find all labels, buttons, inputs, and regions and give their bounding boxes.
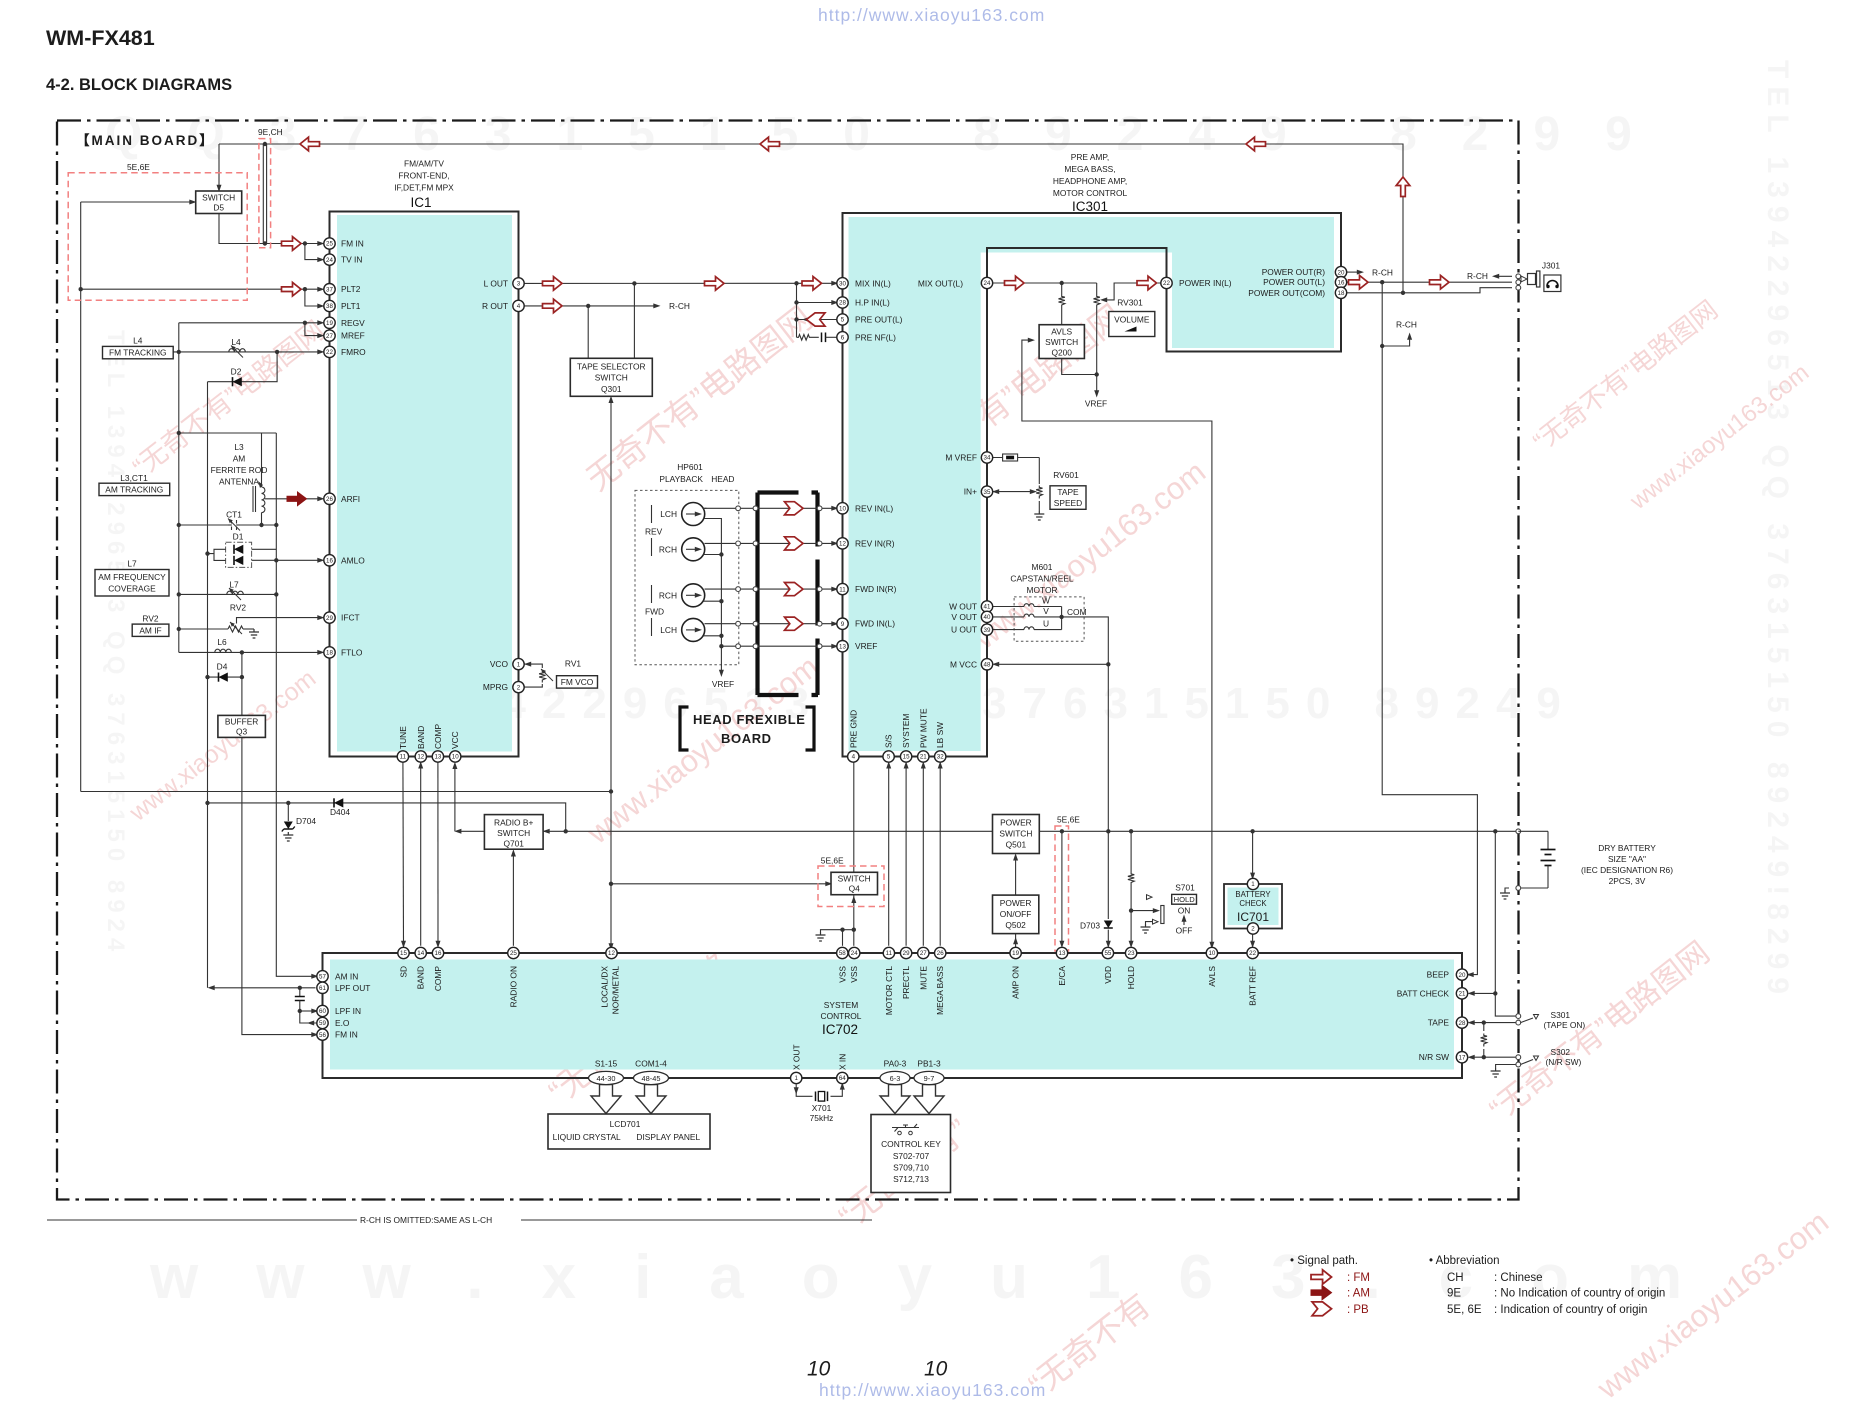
svg-text:(TAPE ON): (TAPE ON) xyxy=(1544,1020,1586,1030)
svg-text:(N/R SW): (N/R SW) xyxy=(1546,1057,1582,1067)
IC301 bottom pin labels rotated xyxy=(848,708,945,748)
svg-text:IF,DET,FM MPX: IF,DET,FM MPX xyxy=(394,183,454,193)
pin 18 IC301 POWER OUT(COM) xyxy=(1335,287,1346,298)
head coil REV RCH xyxy=(682,538,705,561)
svg-text:TAPE: TAPE xyxy=(1057,487,1079,497)
capacitor CT1 (trimmer) xyxy=(226,510,242,531)
pin 22 IC301 POWER IN(L) xyxy=(1161,277,1172,288)
svg-text:COMP: COMP xyxy=(433,966,443,992)
svg-text:21: 21 xyxy=(1459,991,1466,998)
pin 29 IC702 PRECTL xyxy=(900,947,911,958)
svg-text:25: 25 xyxy=(510,950,517,957)
svg-text:MEGA BASS,: MEGA BASS, xyxy=(1064,164,1115,174)
svg-text:AMP ON: AMP ON xyxy=(1011,966,1021,999)
svg-text:VREF: VREF xyxy=(1085,399,1107,409)
svg-text:FM IN: FM IN xyxy=(335,1030,358,1040)
svg-text:FWD IN(L): FWD IN(L) xyxy=(855,619,895,629)
svg-text:RV301: RV301 xyxy=(1117,298,1143,308)
svg-text:VDD: VDD xyxy=(1103,966,1113,984)
svg-text:2: 2 xyxy=(517,684,521,691)
variant box 9E,CH xyxy=(259,139,271,248)
pin 57 IC702 AM IN xyxy=(317,971,328,982)
svg-text:• Abbreviation: • Abbreviation xyxy=(1429,1255,1500,1267)
svg-text:19: 19 xyxy=(1012,950,1019,957)
svg-text:POWER: POWER xyxy=(1000,818,1032,828)
wire: top return bus y=144 xyxy=(219,144,1403,293)
pin 11 IC702 MOTOR CTL xyxy=(883,947,894,958)
pin 17 IC702 N/R SW xyxy=(1456,1052,1467,1063)
svg-text:PLAYBACK: PLAYBACK xyxy=(659,474,703,484)
svg-text:10: 10 xyxy=(452,754,459,761)
svg-text:D2: D2 xyxy=(231,367,242,377)
switch D5 box xyxy=(196,191,242,214)
wire: VDD via D703 xyxy=(1107,831,1109,945)
svg-text:J301: J301 xyxy=(1542,261,1561,271)
svg-text:SIZE "AA": SIZE "AA" xyxy=(1608,854,1646,864)
svg-text:SPEED: SPEED xyxy=(1054,498,1082,508)
rule line beside R-CH IS OMITTED note xyxy=(47,1219,357,1221)
svg-text:SWITCH: SWITCH xyxy=(497,828,530,838)
pin 59 IC702 E.O xyxy=(317,1017,328,1028)
pin 35 IC301 IN+ xyxy=(981,486,992,497)
wire: SWITCH Q4 input from LOCAL/DX line xyxy=(611,883,829,885)
resistor between TAPE and N/R SW xyxy=(1481,1034,1487,1047)
svg-text:HP601: HP601 xyxy=(677,462,703,472)
wire: BATT CHECK to pin 21 xyxy=(1471,992,1496,994)
battery BAT (dry battery) xyxy=(1500,829,1556,899)
wire: BAND pins 12-14 xyxy=(420,765,422,946)
svg-text:BAND: BAND xyxy=(416,726,426,749)
svg-text:RV1: RV1 xyxy=(565,659,581,669)
svg-text:PRE AMP,: PRE AMP, xyxy=(1071,152,1109,162)
svg-text:39: 39 xyxy=(984,627,991,634)
svg-text:6-3: 6-3 xyxy=(890,1074,901,1083)
pin 13 IC1 COMP xyxy=(432,751,443,762)
label L3 AM FERRITE ROD ANTENNA xyxy=(211,442,268,487)
svg-text:FM/AM/TV: FM/AM/TV xyxy=(404,159,444,169)
wire: vertical x=276.3 down to AM IN xyxy=(276,525,315,976)
svg-text:BATTERY: BATTERY xyxy=(1235,890,1271,899)
svg-text:RV2: RV2 xyxy=(142,614,158,624)
svg-text:R-CH: R-CH xyxy=(1372,268,1393,278)
label box L7 AM FREQUENCY COVERAGE xyxy=(95,559,169,597)
label R-CH mid right xyxy=(1382,336,1409,346)
svg-text:IC301: IC301 xyxy=(1072,199,1108,214)
svg-text:TAPE SELECTOR: TAPE SELECTOR xyxy=(577,362,646,372)
wire: TAPE pin 28 to S301 xyxy=(1471,1022,1517,1024)
pin 60 IC702 LPF IN xyxy=(317,1005,328,1016)
switch Q4 box xyxy=(831,872,878,894)
svg-text:Q3: Q3 xyxy=(236,727,248,737)
svg-text:S301: S301 xyxy=(1551,1010,1571,1020)
pin 10 IC301 REV IN(L) xyxy=(837,503,848,514)
svg-text:MIX OUT(L): MIX OUT(L) xyxy=(918,278,963,288)
bus arrow PA0-3 to control keys xyxy=(880,1085,910,1114)
svg-text:IC701: IC701 xyxy=(1237,910,1269,924)
svg-text:13: 13 xyxy=(434,754,441,761)
svg-text:23: 23 xyxy=(1128,950,1135,957)
svg-text:HEAD: HEAD xyxy=(711,474,734,484)
svg-text:LPF OUT: LPF OUT xyxy=(335,983,370,993)
svg-text:SYSTEM: SYSTEM xyxy=(901,714,911,748)
pin 27 IC702 MUTE xyxy=(918,947,929,958)
wire: E/CA line xyxy=(1061,831,1063,945)
svg-text:: Chinese: : Chinese xyxy=(1494,1272,1543,1284)
svg-text:【MAIN BOARD】: 【MAIN BOARD】 xyxy=(76,133,215,148)
head coil FWD RCH xyxy=(682,584,705,607)
svg-text:LCH: LCH xyxy=(660,509,677,519)
svg-text:REV IN(L): REV IN(L) xyxy=(855,503,893,513)
svg-text:AM TRACKING: AM TRACKING xyxy=(105,484,163,494)
svg-text:COM: COM xyxy=(1067,607,1087,617)
svg-text:64: 64 xyxy=(839,1075,846,1082)
svg-text:4: 4 xyxy=(852,754,856,761)
pin 23 IC702 HOLD xyxy=(1125,947,1136,958)
wire: R OUT to R-CH xyxy=(519,305,658,307)
svg-text:20: 20 xyxy=(1459,972,1466,979)
pin 55 IC702 VDD xyxy=(1102,947,1113,958)
pin 12 IC1 BAND xyxy=(415,751,426,762)
pin 24 IC1 TV IN xyxy=(324,254,335,265)
svg-text:DRY BATTERY: DRY BATTERY xyxy=(1598,843,1656,853)
svg-text:AM IF: AM IF xyxy=(139,625,161,635)
svg-text:FWD IN(R): FWD IN(R) xyxy=(855,584,897,594)
svg-text:PLT2: PLT2 xyxy=(341,284,361,294)
svg-text:V: V xyxy=(1043,606,1049,616)
wire: M VREF pin 34 network xyxy=(993,454,1040,484)
zener diode D704 to ground xyxy=(282,803,317,841)
pin 37 IC1 PLT2 xyxy=(324,284,335,295)
wire: vertical x=207.5 D2 to LPF OUT xyxy=(207,382,209,988)
svg-text:RADIO B+: RADIO B+ xyxy=(494,818,533,828)
svg-text:TEL 13942296513 QQ 376315150 8: TEL 13942296513 QQ 376315150 8924 xyxy=(102,330,129,957)
svg-text:ON/OFF: ON/OFF xyxy=(1000,909,1032,919)
net VREF (below RV301) xyxy=(1085,375,1107,409)
pin 61 IC702 LPF OUT xyxy=(317,982,328,993)
svg-text:D404: D404 xyxy=(330,807,350,817)
wire: FWD IN(R) line y=589.1 xyxy=(705,588,836,590)
svg-text:: FM: : FM xyxy=(1347,1272,1370,1284)
switch S301 (TAPE ON) xyxy=(1516,1010,1586,1030)
svg-text:ANTENNA: ANTENNA xyxy=(219,477,259,487)
connector J301 headphone jack xyxy=(1516,261,1561,292)
svg-text:14: 14 xyxy=(417,950,424,957)
pin 11 IC1 TUNE xyxy=(397,751,408,762)
volume control RV301 box xyxy=(1109,298,1155,337)
bus arrow to LCD common lines xyxy=(636,1085,666,1114)
svg-text:15: 15 xyxy=(400,950,407,957)
pin 26 IC1 ARFI xyxy=(324,493,335,504)
svg-text:17: 17 xyxy=(1459,1054,1466,1061)
svg-text:LCH: LCH xyxy=(660,625,677,635)
svg-text:5E,6E: 5E,6E xyxy=(127,162,150,172)
wire: AMLO row to pin 16 xyxy=(252,559,321,561)
svg-text:LB SW: LB SW xyxy=(935,722,945,748)
inductor L7 (variable) xyxy=(227,580,244,601)
svg-text:S302: S302 xyxy=(1551,1047,1571,1057)
svg-text:AM IN: AM IN xyxy=(335,971,358,981)
pin 20 IC702 BEEP xyxy=(1456,969,1467,980)
svg-text:AMLO: AMLO xyxy=(341,555,365,565)
wire: S302 ground side xyxy=(1496,1065,1516,1069)
watermark: pink cluster upper-left xyxy=(127,315,330,483)
svg-text:RCH: RCH xyxy=(659,591,677,601)
svg-text:25: 25 xyxy=(326,241,333,248)
pin 2 IC701 2 (bottom) xyxy=(1247,923,1258,934)
pin 6 IC301 PRE NF(L) xyxy=(837,332,848,343)
svg-text:44-30: 44-30 xyxy=(597,1074,616,1083)
watermark: pink cluster mid-right xyxy=(917,297,1130,475)
svg-text:MIX IN(L): MIX IN(L) xyxy=(855,278,891,288)
svg-text:ARFI: ARFI xyxy=(341,494,360,504)
svg-text:POWER OUT(COM): POWER OUT(COM) xyxy=(1248,288,1325,298)
wire: left loop vertical x=80.7 xyxy=(80,202,82,792)
svg-text:HOLD: HOLD xyxy=(1174,895,1196,904)
FM signal arrows on top return bus xyxy=(300,137,320,151)
svg-text:BATT CHECK: BATT CHECK xyxy=(1397,988,1450,998)
svg-text:IN+: IN+ xyxy=(964,487,977,497)
svg-text:S1-15: S1-15 xyxy=(595,1059,618,1069)
wire: FWD IN(L) line y=623.7 xyxy=(705,623,836,625)
pin 12 IC702 LOCAL/DX xyxy=(606,947,617,958)
svg-text:MREF: MREF xyxy=(341,331,365,341)
tape selector switch Q301 box xyxy=(570,358,652,396)
pin 28 IC301 H.P IN(L) xyxy=(837,297,848,308)
svg-text:M VREF: M VREF xyxy=(945,453,977,463)
inductor L6 xyxy=(215,637,232,652)
wire: H.P IN feedback vertical x=796.5 xyxy=(796,283,798,337)
svg-text:SYSTEM: SYSTEM xyxy=(824,1000,858,1010)
svg-text:Q301: Q301 xyxy=(601,384,622,394)
svg-text:REV IN(R): REV IN(R) xyxy=(855,538,895,548)
pin 14 IC702 BAND xyxy=(415,947,426,958)
svg-text:MOTOR CTL: MOTOR CTL xyxy=(884,966,894,1016)
label box L4 FM TRACKING xyxy=(103,336,174,359)
svg-text:L3,CT1: L3,CT1 xyxy=(120,473,148,483)
svg-text:35: 35 xyxy=(984,489,991,496)
pin 3 IC1 L OUT xyxy=(513,278,524,289)
svg-text:L4: L4 xyxy=(133,336,143,346)
pin 28 IC702 TAPE xyxy=(1456,1017,1467,1028)
FM arrow on R OUT xyxy=(543,299,563,313)
svg-text:RV2: RV2 xyxy=(230,603,246,613)
wire: PW MUTE pin 21 to MUTE xyxy=(922,765,924,946)
head coil FWD LCH xyxy=(682,618,705,641)
IC702 top pin labels rotated xyxy=(399,966,1258,1016)
svg-text:SD: SD xyxy=(399,966,409,978)
svg-text:TEL 13942296513 QQ 376315150 8: TEL 13942296513 QQ 376315150 89249!8299 xyxy=(1761,60,1794,1002)
switch S701 HOLD xyxy=(1131,883,1196,936)
svg-text:FERRITE ROD: FERRITE ROD xyxy=(211,465,268,475)
svg-text:SWITCH: SWITCH xyxy=(202,193,235,203)
pin 15 IC702 SD xyxy=(398,947,409,958)
svg-text:PLT1: PLT1 xyxy=(341,301,361,311)
svg-text:POWER IN(L): POWER IN(L) xyxy=(1179,278,1232,288)
svg-text:PRE OUT(L): PRE OUT(L) xyxy=(855,315,903,325)
svg-text:D4: D4 xyxy=(217,662,228,672)
IC702 bus pin COM1-4 48-45 xyxy=(634,1071,669,1084)
pin 58 IC702 VSS xyxy=(837,947,848,958)
main board dash-dot border xyxy=(57,121,1519,1200)
pin 26 IC702 MEGA BASS xyxy=(935,947,946,958)
wire: head common VREF vertical x=721.4 xyxy=(704,519,735,690)
svg-text:16: 16 xyxy=(435,950,442,957)
pin 56 IC702 FM IN xyxy=(317,1029,328,1040)
svg-text:RADIO ON: RADIO ON xyxy=(508,966,518,1007)
IC1 bottom pin labels rotated xyxy=(398,723,460,749)
svg-text:AVLS: AVLS xyxy=(1051,327,1072,337)
wire: PRE GND pin 4 through switch Q4 xyxy=(853,757,855,930)
wire: RV301 wiper to POWER IN(L) xyxy=(1103,283,1167,300)
svg-text:18: 18 xyxy=(326,650,333,657)
svg-text:U: U xyxy=(1043,619,1049,629)
motor M601 CAPSTAN/REEL xyxy=(993,562,1087,641)
pin 21 IC702 BATT CHECK xyxy=(1456,988,1467,999)
svg-text:10: 10 xyxy=(1208,950,1215,957)
node: 9E,CH bypass double line xyxy=(262,144,264,244)
svg-text:MUTE: MUTE xyxy=(918,966,928,990)
svg-text:10: 10 xyxy=(807,1358,831,1381)
svg-text:11: 11 xyxy=(400,754,407,761)
pin 13 IC702 E/CA xyxy=(1056,947,1067,958)
svg-text:VREF: VREF xyxy=(855,641,877,651)
wire: FMRO line y=351.9 xyxy=(173,351,321,353)
IC702 bus pin PA0-3 6-3 xyxy=(880,1071,910,1084)
labels LCH/RCH REV FWD xyxy=(645,505,677,636)
pin 22 IC1 FMRO xyxy=(324,346,335,357)
wire: COMP pins 13-16 xyxy=(437,757,439,945)
svg-text:: Indication of country of ori: : Indication of country of origin xyxy=(1494,1304,1647,1316)
wire: Q301 output / LOCAL-DX vertical x=611 xyxy=(610,399,612,947)
svg-text:19: 19 xyxy=(326,320,333,327)
svg-text:M VCC: M VCC xyxy=(950,659,977,669)
AM arrow into ARFI xyxy=(287,492,307,506)
wire: E.O pin 59 xyxy=(300,1011,317,1023)
pin 29 IC1 IFCT xyxy=(324,612,335,623)
svg-text:SWITCH: SWITCH xyxy=(838,874,871,884)
svg-text:11: 11 xyxy=(886,950,893,957)
svg-text:MPRG: MPRG xyxy=(483,682,508,692)
svg-text:HOLD: HOLD xyxy=(1126,966,1136,989)
svg-text:5E, 6E: 5E, 6E xyxy=(1447,1304,1482,1316)
svg-text:9: 9 xyxy=(841,621,845,628)
svg-text:QQ376315150 89249 8299: QQ376315150 89249 8299 xyxy=(105,108,1677,161)
wire: REV IN(L) line y=508.3 xyxy=(705,507,836,509)
head flexible board connector (thick dashed frame) xyxy=(758,493,819,696)
wire: D404 line y=802.9 xyxy=(208,803,566,831)
pin 1 IC701 1 (top) xyxy=(1247,878,1258,889)
wire: REGV distribution vertical x=178.8 xyxy=(178,323,180,653)
diode D2 xyxy=(231,367,242,387)
pin 22 IC702 BATT REF xyxy=(1247,947,1258,958)
label box RV2 AM IF xyxy=(132,614,169,637)
wire: branch to MREF pin 27 xyxy=(305,323,321,336)
svg-text:20: 20 xyxy=(1338,269,1345,276)
IC702 bus pin PB1-3 9-7 xyxy=(914,1071,944,1084)
svg-text:48: 48 xyxy=(984,662,991,669)
display LCD701 box xyxy=(548,1114,710,1149)
pin 32 IC301 LB SW xyxy=(935,751,946,762)
wire: FTLO row y=652.4 xyxy=(179,651,321,653)
wire: RV2 wiper to IFCT pin 29 xyxy=(237,618,322,624)
svg-text:BOARD: BOARD xyxy=(721,731,772,746)
svg-text:12: 12 xyxy=(417,754,424,761)
wire: PLT2 line y=289.2 xyxy=(81,288,321,290)
svg-text:BATT REF: BATT REF xyxy=(1248,966,1258,1006)
wire: RADIO ON IC702 pin 25 to Q701 xyxy=(512,853,514,946)
diode D4 xyxy=(217,662,228,682)
svg-text:CHECK: CHECK xyxy=(1239,899,1267,908)
svg-text:38: 38 xyxy=(326,303,333,310)
ground stub at VSS xyxy=(821,930,843,932)
svg-text:58: 58 xyxy=(839,950,846,957)
pin 34 IC301 M VREF xyxy=(981,452,992,463)
variant box 5E,6E (Q4) xyxy=(818,866,884,907)
svg-text:4: 4 xyxy=(517,303,521,310)
svg-text:PW MUTE: PW MUTE xyxy=(918,708,928,748)
switch S302 (N/R SW) xyxy=(1516,1047,1582,1067)
wire: D1 anode join at x=207.5 xyxy=(208,549,226,553)
pin 5 IC301 S/S xyxy=(883,751,894,762)
wire: H.P IN(L) pin 28 xyxy=(797,302,836,304)
svg-text:13: 13 xyxy=(1059,950,1066,957)
wire: N/R SW pin 17 to S302 xyxy=(1471,1056,1517,1058)
svg-text:W OUT: W OUT xyxy=(949,602,977,612)
pin 39 IC301 U OUT xyxy=(981,624,992,635)
variant box 5E,6E (E/CA) xyxy=(1055,826,1069,951)
svg-text:PRECTL: PRECTL xyxy=(901,966,911,999)
IC301 left pin labels xyxy=(855,278,903,651)
svg-text:37: 37 xyxy=(326,286,333,293)
svg-text:D5: D5 xyxy=(213,203,224,213)
svg-text:R-CH: R-CH xyxy=(1396,320,1417,330)
FM arrows on MIX OUT to POWER IN line xyxy=(1005,276,1025,290)
svg-text:1: 1 xyxy=(794,1075,798,1082)
wire: VREF line y=646.2 xyxy=(721,645,835,647)
svg-text:• Signal path.: • Signal path. xyxy=(1290,1255,1358,1267)
wire: buffer Q3 feed vertical x=241.9 xyxy=(241,652,243,716)
svg-text:OFF: OFF xyxy=(1176,926,1193,936)
svg-text:16: 16 xyxy=(326,558,333,565)
svg-text:L7: L7 xyxy=(127,559,137,569)
svg-text:60: 60 xyxy=(319,1008,326,1015)
watermark: pink cluster bottom-center xyxy=(832,1112,976,1236)
svg-text:L4: L4 xyxy=(231,337,241,347)
pin 4 IC301 PRE GND xyxy=(848,751,859,762)
svg-text:H.P IN(L): H.P IN(L) xyxy=(855,298,890,308)
label HEAD FREXIBLE BOARD xyxy=(680,707,814,750)
wire: HOLD line with resistor xyxy=(1130,831,1132,872)
PB arrows on head playback lines xyxy=(785,502,804,515)
pot RV1 FM VCO xyxy=(524,659,598,689)
pin 13 IC301 VREF xyxy=(837,641,848,652)
IC1 title labels xyxy=(394,159,454,211)
svg-text:R-CH: R-CH xyxy=(1467,271,1488,281)
variant box 5E,6E (D5 section) xyxy=(68,173,247,300)
svg-text:13: 13 xyxy=(839,643,846,650)
wire: switch D5 input from LOCAL/DX loop xyxy=(81,201,193,203)
svg-text:LCD701: LCD701 xyxy=(610,1119,641,1129)
svg-text:57: 57 xyxy=(319,974,326,981)
svg-text:HEADPHONE AMP,: HEADPHONE AMP, xyxy=(1053,176,1127,186)
svg-text:SWITCH: SWITCH xyxy=(1045,337,1078,347)
pin 25 IC702 RADIO ON xyxy=(508,947,519,958)
pin 15 IC301 SYSTEM xyxy=(900,751,911,762)
svg-text:11: 11 xyxy=(839,586,846,593)
wire: LPF OUT to filter xyxy=(211,987,316,989)
AVLS switch Q200 box xyxy=(1039,325,1084,359)
wire: D4 row y=677.1 xyxy=(208,676,242,678)
